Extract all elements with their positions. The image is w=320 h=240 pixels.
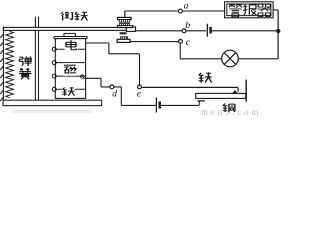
watermark band left	[12, 110, 92, 113]
strip support post	[245, 80, 247, 102]
alarm box 警报器	[225, 2, 274, 18]
label 衔铁 (armature)	[61, 12, 74, 21]
wire contact to c	[130, 41, 179, 43]
label 电	[65, 40, 78, 52]
wire c down to lamp	[180, 43, 222, 59]
contact tab under armature	[120, 32, 127, 34]
battery (bottom) long plate	[155, 97, 157, 112]
electromagnet coil body	[55, 39, 85, 99]
node e	[138, 85, 142, 89]
wire coil to d	[101, 78, 110, 87]
electromagnet top plate	[54, 37, 87, 39]
svg-text:d: d	[112, 90, 117, 100]
battery (b wire) long plate	[206, 28, 210, 34]
right vertical wire	[277, 10, 279, 59]
coil upper terminal wire	[86, 42, 109, 44]
pivot post	[35, 17, 38, 101]
coil loops (left)	[52, 47, 56, 91]
wire alarm to right vertical	[273, 9, 278, 11]
wire d to bottom	[114, 87, 157, 106]
node d	[110, 85, 114, 89]
node a	[179, 9, 183, 13]
armature end cap	[126, 27, 135, 32]
armature contact screw (hatched)	[119, 24, 129, 26]
node c	[179, 40, 183, 44]
strip clamp T	[197, 100, 204, 102]
battery (bottom) short plate	[159, 102, 162, 109]
wire e to strip contact	[141, 87, 238, 91]
wire armature to b	[136, 30, 279, 32]
coil lower terminal curl	[81, 75, 84, 78]
armature bar (衔铁)	[3, 27, 135, 30]
upper contact screw (hatched)	[119, 20, 129, 23]
lower contact plate	[117, 39, 130, 42]
label 弹簧 (spring)	[19, 57, 31, 67]
coil lower terminal wire	[84, 77, 101, 79]
armature contact plate	[118, 26, 133, 28]
wire coil to e	[109, 43, 140, 85]
upper contact plate	[118, 17, 132, 19]
svg-text:b: b	[185, 21, 190, 31]
spring (弹簧)	[6, 31, 14, 97]
label 铜 (copper)	[223, 104, 235, 113]
svg-text:men5.com: men5.com	[201, 107, 261, 116]
lower contact screw (hatched)	[121, 37, 128, 40]
wire lamp to right	[238, 58, 278, 60]
wall (hatched fixed frame, left)	[0, 27, 3, 102]
junction node	[276, 29, 280, 33]
battery (b wire) short plate	[209, 27, 211, 34]
contact point on strip	[232, 90, 237, 93]
wire a	[125, 10, 225, 12]
svg-text:a: a	[184, 2, 189, 12]
bimetallic strip	[196, 93, 246, 98]
lamp	[222, 50, 239, 67]
label 铁 (iron)	[199, 72, 212, 82]
svg-text:e: e	[137, 90, 141, 100]
wire battery to strip clamp	[161, 101, 199, 105]
coil turn lines	[55, 49, 85, 89]
electromagnet core top tab	[64, 33, 75, 36]
label 磁	[63, 63, 76, 76]
base (pedestal)	[3, 100, 102, 105]
label 铁	[62, 87, 75, 98]
node b	[182, 29, 186, 33]
wire a drop to upper contact	[124, 11, 126, 17]
